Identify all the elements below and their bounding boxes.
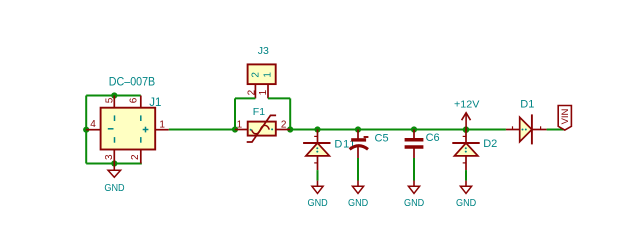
ground GND under D11 (308, 181, 328, 209)
svg-text:F1: F1 (253, 106, 265, 118)
wire main F1 to D1 (290, 129, 506, 131)
svg-text:2: 2 (281, 119, 287, 130)
svg-text:GND: GND (308, 198, 328, 209)
J1 pin 1 (155, 120, 169, 131)
svg-text:GND: GND (348, 198, 368, 209)
svg-text:5: 5 (105, 97, 116, 103)
junction F1 left (232, 126, 238, 132)
svg-text:2: 2 (246, 89, 257, 95)
svg-text:VIN: VIN (560, 108, 571, 124)
svg-text:+12V: +12V (454, 100, 480, 111)
junction C6 (411, 126, 417, 132)
junction J1 pin5 top (111, 92, 117, 98)
svg-text:6: 6 (128, 97, 139, 103)
wire J3 pin2 to left node (235, 97, 255, 99)
wire main J1 to F1 node (169, 129, 235, 131)
diode D1 (506, 114, 547, 144)
svg-text:J1: J1 (149, 97, 161, 109)
global label VIN (558, 106, 571, 131)
svg-text:1: 1 (237, 119, 243, 130)
wire D1 to VIN (547, 129, 564, 131)
J1 pin 3 (104, 150, 115, 164)
wire right node vertical (289, 98, 291, 129)
connector J1 body (101, 108, 156, 150)
svg-text:D2: D2 (483, 138, 497, 150)
wire C6 to GND (413, 158, 415, 181)
junction D11 (314, 126, 320, 132)
power +12V (454, 100, 480, 130)
svg-text:GND: GND (456, 198, 476, 209)
wire D2 to GND (465, 170, 467, 181)
svg-text:1: 1 (263, 72, 274, 78)
J3 pin 2 (246, 84, 257, 98)
junction J1 pin3 bottom (111, 160, 117, 166)
svg-text:1: 1 (159, 120, 165, 131)
wire D11 to GND (317, 170, 319, 181)
J1 pin 6 (128, 96, 140, 108)
J3 pin 1 (258, 84, 269, 98)
diode D11 (303, 130, 330, 171)
svg-text:DC–007B: DC–007B (109, 74, 155, 88)
ground GND under C5 (348, 181, 368, 209)
svg-text:C6: C6 (426, 132, 440, 144)
fuse F1 (235, 115, 290, 142)
svg-text:GND: GND (404, 198, 424, 209)
svg-text:1: 1 (258, 89, 269, 95)
svg-text:GND: GND (104, 183, 124, 194)
junction J1 pin4 left (83, 127, 89, 133)
ground GND under J1 (104, 164, 124, 194)
capacitor C5 (350, 130, 369, 159)
ground GND under D2 (456, 181, 476, 209)
J1 pin 4 (86, 119, 100, 130)
svg-text:2: 2 (251, 72, 262, 78)
junction C5 (355, 126, 361, 132)
svg-text:C5: C5 (375, 133, 389, 145)
connector J3 body (248, 64, 276, 84)
wire J1 bottom horizontal (86, 163, 142, 165)
capacitor C6 (405, 130, 424, 159)
wire left node vertical (234, 98, 236, 129)
J1 pin 2 (130, 150, 141, 164)
ground GND under C6 (404, 181, 424, 209)
svg-text:D1: D1 (520, 99, 534, 111)
wire J1 top horizontal (86, 95, 141, 97)
wire C5 to GND (357, 158, 359, 181)
junction F1 right (287, 126, 293, 132)
junction D2 / +12V (463, 126, 470, 133)
svg-text:4: 4 (90, 119, 96, 130)
wire J1 left vertical (85, 96, 87, 164)
svg-text:J3: J3 (258, 45, 269, 57)
wire J3 pin1 to right node (268, 97, 290, 99)
J1 pin 5 (105, 96, 116, 108)
svg-text:2: 2 (130, 154, 141, 160)
diode D2 (452, 130, 479, 171)
svg-text:3: 3 (104, 154, 115, 160)
